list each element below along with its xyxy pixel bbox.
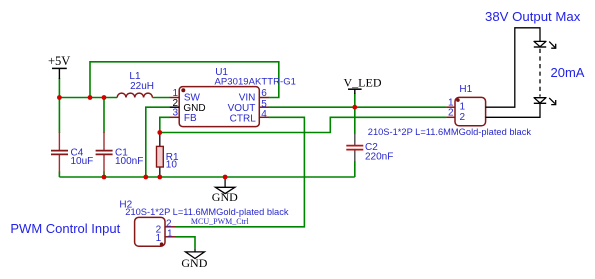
junction VIN riser on top rail: [88, 95, 93, 100]
svg-text:3: 3: [172, 108, 178, 119]
svg-text:220nF: 220nF: [365, 151, 393, 162]
svg-text:22uH: 22uH: [130, 81, 154, 92]
svg-text:+5V: +5V: [48, 54, 70, 68]
junction FB/R1 node: [157, 130, 162, 135]
wire bottom ground rail: [59, 176, 354, 178]
H2 pin 1: [156, 228, 176, 244]
H2 pin 2: [156, 218, 176, 235]
capacitor C4: [51, 132, 93, 173]
connector H2: [119, 200, 288, 247]
svg-text:2: 2: [460, 112, 466, 123]
svg-text:20mA: 20mA: [551, 65, 585, 80]
svg-text:6: 6: [261, 88, 267, 99]
wire VOUT to H1 pin1: [268, 106, 446, 108]
LED D1: [534, 41, 556, 48]
pin 3 FB: [170, 108, 197, 125]
junction GND symbol on ground rail: [223, 175, 228, 180]
svg-text:4: 4: [261, 109, 267, 120]
wire H2 pin1 to GND: [175, 237, 195, 249]
wire C4 branch: [58, 98, 60, 178]
wire dashed LED link: [539, 49, 541, 97]
svg-text:10uF: 10uF: [71, 156, 94, 167]
svg-text:2: 2: [448, 107, 454, 118]
H1 pin 1: [446, 97, 465, 112]
pin 5 VOUT: [228, 99, 269, 114]
connector H1: [368, 84, 532, 137]
svg-text:1: 1: [167, 228, 173, 239]
svg-text:SW: SW: [184, 93, 201, 104]
power +5V: [48, 54, 70, 79]
wire VIN loop: [90, 62, 279, 98]
svg-text:AP3019AKTTR-G1: AP3019AKTTR-G1: [215, 77, 296, 88]
wire CTRL to MCU_PWM_Ctrl: [175, 117, 304, 227]
H1 pin 2: [446, 107, 465, 123]
wire C1 branch: [103, 98, 105, 178]
svg-text:FB: FB: [184, 113, 197, 124]
svg-text:CTRL: CTRL: [230, 113, 257, 124]
wire V_LED column: [354, 93, 356, 177]
LED D2: [534, 98, 556, 105]
pin 4 CTRL: [230, 109, 269, 124]
wire FB feedback to H1 pin2: [160, 117, 447, 132]
wire LED string (black): [486, 28, 540, 118]
svg-text:MCU_PWM_Ctrl: MCU_PWM_Ctrl: [191, 217, 250, 226]
pin 2 GND: [170, 98, 206, 114]
svg-text:H1: H1: [459, 84, 472, 95]
power V_LED: [344, 76, 382, 95]
ground (under H2): [181, 249, 207, 271]
pin 1 SW: [170, 88, 201, 103]
wire U1 GND to rail: [146, 107, 170, 177]
svg-text:1: 1: [460, 102, 466, 113]
svg-text:10: 10: [166, 159, 178, 170]
svg-text:210S-1*2P L=11.6MMGold-plated: 210S-1*2P L=11.6MMGold-plated black: [125, 207, 289, 217]
svg-text:VIN: VIN: [239, 93, 256, 104]
IC U1 AP3019AKTTR-G1: [179, 67, 296, 126]
svg-text:210S-1*2P L=11.6MMGold-plated: 210S-1*2P L=11.6MMGold-plated black: [368, 127, 532, 137]
junction U1 GND on ground rail: [143, 175, 148, 180]
capacitor C1: [96, 132, 144, 173]
pin 6 VIN: [239, 88, 269, 103]
svg-text:100nF: 100nF: [115, 156, 143, 167]
svg-text:38V Output Max: 38V Output Max: [485, 9, 581, 24]
wire top rail +5V: [59, 78, 170, 98]
junction +5V/C4 on top rail: [57, 95, 62, 100]
junction R1 on ground rail: [157, 175, 162, 180]
inductor L1: [117, 71, 154, 98]
capacitor C2: [346, 134, 393, 163]
svg-text:V_LED: V_LED: [344, 76, 382, 90]
svg-text:GND: GND: [212, 190, 238, 204]
junction V_LED/C2 on VOUT net: [352, 105, 357, 110]
junction C1 on ground rail: [102, 175, 107, 180]
svg-text:PWM Control Input: PWM Control Input: [10, 221, 120, 236]
wire FB down: [160, 117, 170, 132]
svg-text:1: 1: [156, 233, 162, 244]
resistor R1: [157, 133, 180, 178]
junction C1 on top rail: [102, 95, 107, 100]
ground (under U1): [212, 177, 238, 204]
svg-text:GND: GND: [181, 256, 207, 270]
